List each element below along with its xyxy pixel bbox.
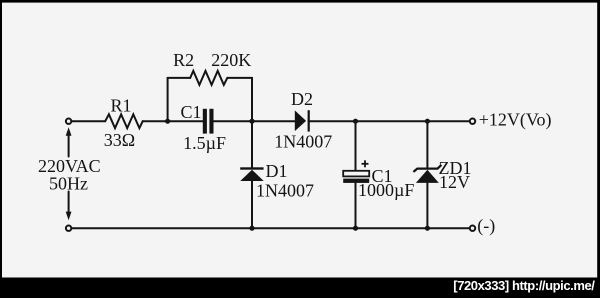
wire: R2 branch top left [168,77,191,79]
bottom rail junction dot at D1 [249,226,254,231]
wire: node C to node D [356,120,428,122]
diode D2 cathode bar [308,110,310,131]
capacitor C1 1000uF plus polarity mark [362,160,369,167]
zener diode ZD1 triangle [416,170,439,183]
svg-text:1000µF: 1000µF [358,180,414,200]
capacitor C1 1.5uF right plate [209,109,213,134]
svg-text:220K: 220K [211,50,251,70]
node B junction dot [249,119,254,124]
diode D1 triangle [240,170,263,181]
wire: bottom rail, C1 to ZD1 [356,227,428,229]
wire: node C down to capacitor C1 1000uF [355,121,357,171]
AC source arrow up [68,135,70,157]
input terminal top [66,119,71,124]
diode D1 cathode bar [240,167,263,169]
capacitor C1 1000uF bottom plate [343,179,369,183]
node A junction dot [165,119,170,124]
wire: D2 cathode to node C [309,120,356,122]
svg-text:C1: C1 [181,102,202,122]
wire: R1 to node A [143,120,168,122]
wire: capacitor C1 1000uF to bottom rail [355,183,357,228]
svg-text:R1: R1 [110,96,131,116]
wire: D1 anode down to bottom rail [251,181,253,228]
node C junction dot [353,119,358,124]
wire: C1 right plate to node B [213,120,252,122]
wire: bottom rail, D1 to C1 [252,227,356,229]
svg-text:33Ω: 33Ω [104,130,135,150]
svg-text:1.5µF: 1.5µF [183,133,226,153]
svg-text:1N4007: 1N4007 [274,132,332,152]
wire: node B down to D1 cathode [251,121,253,167]
svg-text:1N4007: 1N4007 [256,181,314,201]
wire: bottom rail, input terminal to D1 [72,227,252,229]
output terminal plus [470,119,475,124]
resistor R2 [190,71,227,85]
svg-text:[720x333] http://upic.me/: [720x333] http://upic.me/ [453,278,595,293]
wire: node B to D2 anode [252,120,295,122]
AC source arrow down [68,192,70,214]
bottom rail junction dot at C1 [353,226,358,231]
diode D2 1N4007 triangle [295,110,306,131]
bottom rail junction dot at ZD1 [425,226,430,231]
wire: node A to C1 left plate [168,120,203,122]
wire: node D to output terminal [427,120,469,122]
watermark bar [0,278,600,298]
output terminal minus [470,226,475,231]
zener diode ZD1 cathode bar [413,165,441,172]
capacitor C1 1.5uF left plate [203,109,207,134]
wire: R2 branch top right [227,77,252,79]
capacitor C1 1000uF top plate [343,171,369,177]
svg-text:12V: 12V [439,172,470,192]
wire: zener ZD1 to bottom rail [426,183,428,228]
svg-text:50Hz: 50Hz [49,174,88,194]
svg-text:D2: D2 [291,89,313,109]
svg-text:D1: D1 [266,161,288,181]
svg-text:R2: R2 [173,50,194,70]
svg-text:(-): (-) [477,216,495,237]
wire: top rail, input terminal to R1 [72,120,105,122]
AC source arrowhead down [66,212,72,221]
input terminal bottom [66,226,71,231]
wire: R2 branch left riser [167,78,169,121]
svg-text:+12V(Vo): +12V(Vo) [479,110,552,131]
resistor R1 [105,114,143,128]
wire: node D down to zener ZD1 [426,121,428,168]
AC source arrowhead up [66,127,72,136]
wire: R2 branch right riser [251,78,253,121]
wire: bottom rail, ZD1 to output terminal [427,227,469,229]
node D junction dot [425,119,430,124]
